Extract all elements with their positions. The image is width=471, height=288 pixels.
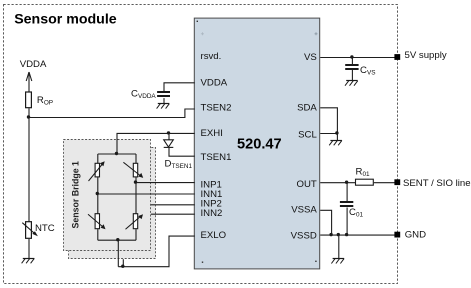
svg-text:GND: GND [405, 230, 426, 241]
svg-text:TSEN2: TSEN2 [201, 102, 232, 113]
junction C_01/VSSD [345, 233, 348, 236]
ground below C_VDDA [157, 104, 170, 109]
wire INN2 net [151, 213, 195, 215]
ground below NTC [22, 258, 35, 263]
wire bridge left leg lower [97, 229, 99, 240]
svg-text:rsvd.: rsvd. [201, 51, 222, 62]
junction below R_OP [27, 115, 30, 118]
wire bridge bottom rail [98, 239, 136, 241]
bridge resistor bottom-left [88, 214, 106, 230]
resistor R_OP [26, 92, 32, 108]
ground below C_VS [345, 81, 358, 86]
resistor R_01 [356, 179, 374, 185]
svg-text:Sensor module: Sensor module [14, 12, 117, 28]
junction EXHI/diode [167, 131, 170, 134]
svg-text:NTC: NTC [35, 223, 55, 234]
svg-text:SENT / SIO line: SENT / SIO line [403, 178, 471, 189]
capacitor C_01 [340, 202, 353, 206]
wire R_OP to NTC rail [28, 108, 30, 222]
wire bridge right leg lower [135, 229, 137, 240]
ground below VSSD [331, 259, 344, 264]
svg-text:TSEN1: TSEN1 [201, 152, 232, 163]
wire SCL net [320, 133, 337, 135]
wire INN1 net [98, 193, 195, 195]
junction EXHI/bridge-top (node) [115, 152, 118, 155]
wire bridge right leg upper [135, 154, 137, 164]
bridge resistor bottom-right [126, 214, 144, 230]
junction VS/C_VS [350, 55, 353, 58]
svg-text:SDA: SDA [297, 102, 317, 113]
terminal GND [394, 232, 400, 238]
wire INP2 net [151, 204, 195, 206]
IC U1 520.47 body [194, 18, 319, 269]
wire bridge2 bottom stub [122, 259, 124, 267]
capacitor C_VDDA [157, 92, 170, 96]
wire C_VDDA to ground [163, 98, 165, 104]
svg-text:OUT: OUT [297, 179, 317, 190]
svg-text:VDDA: VDDA [201, 78, 228, 89]
junction bridge bottom [116, 238, 119, 241]
svg-text:VSSD: VSSD [291, 230, 317, 241]
junction bridge right mid (INP1) [134, 180, 137, 183]
wire bridge right leg middle [135, 177, 137, 214]
wire diode anode stub [168, 133, 170, 140]
wire bridge left leg upper [97, 154, 99, 164]
svg-text:EXHI: EXHI [201, 128, 223, 139]
wire diode cathode to TSEN1 [169, 148, 195, 156]
wire EXHI net: IC to bridge top [117, 133, 195, 154]
capacitor C_VS [345, 65, 358, 69]
wire VDDA pin to C_VDDA [164, 83, 195, 92]
wire VDDA arrow to R_OP [28, 72, 30, 93]
wire bridge top rail [98, 153, 136, 155]
junction OUT/C_01 [345, 181, 348, 184]
wire VS net: IC to 5V terminal [320, 57, 395, 59]
junction EXLO bottom [121, 265, 124, 268]
terminal SENT / SIO line [394, 179, 400, 185]
wire bridge bottom stem [117, 240, 119, 267]
svg-text:EXLO: EXLO [201, 230, 227, 241]
wire EXLO net [118, 236, 195, 267]
junction SDA/SCL [335, 131, 338, 134]
IC corner marks [197, 21, 198, 22]
junction ground stub [337, 233, 340, 236]
wire OUT net: IC to R_01 [320, 182, 356, 184]
svg-text:VS: VS [304, 52, 317, 63]
ground below SCL [329, 140, 342, 145]
junction bridge left mid (INN1) [96, 192, 99, 195]
diode D_TSEN1 [164, 140, 174, 148]
bridge resistor top-right [123, 162, 143, 178]
junction VSSA/VSSD [329, 233, 332, 236]
sensor bridge 1 box [64, 140, 151, 251]
svg-text:Sensor Bridge 1: Sensor Bridge 1 [70, 161, 80, 229]
wire R_01 to SENT terminal [374, 182, 395, 184]
bridge resistor top-left [89, 161, 105, 181]
svg-text:5V supply: 5V supply [405, 50, 447, 61]
svg-text:520.47: 520.47 [237, 136, 282, 152]
thermistor NTC [22, 222, 38, 239]
sensor bridge 2 box [69, 148, 156, 259]
wire VSSA net [320, 210, 331, 235]
svg-text:VSSA: VSSA [291, 205, 317, 216]
wire bridge left leg middle [97, 177, 99, 214]
wire TSEN2 net: junction to IC [29, 109, 195, 118]
wire C_01 bottom to VSSD net [346, 208, 348, 236]
svg-text:INN2: INN2 [201, 208, 223, 219]
terminal 5V supply [394, 54, 400, 60]
node VDDA arrow [26, 72, 32, 81]
svg-text:SCL: SCL [298, 129, 317, 140]
wire ground stub on VSSD [338, 235, 340, 258]
wire VSSD net: IC to GND terminal [320, 234, 395, 236]
wire NTC to ground [28, 239, 30, 259]
wire C_VS top stub [351, 58, 353, 65]
wire INP1 net [136, 182, 195, 184]
wire C_VS to ground [351, 70, 353, 81]
wire SDA net [320, 108, 337, 140]
svg-text:VDDA: VDDA [20, 59, 47, 70]
wire C_01 top stub [346, 183, 348, 202]
